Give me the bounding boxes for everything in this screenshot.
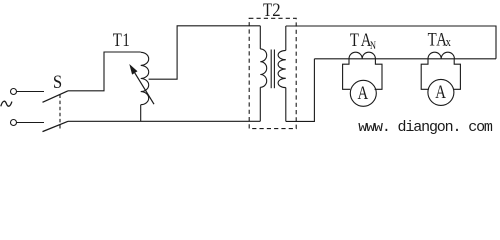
T2 core line right	[273, 50, 275, 89]
measuring circuit primary line	[314, 58, 496, 60]
T2 primary bottom lead	[259, 87, 261, 121]
terminal bottom	[11, 120, 17, 126]
wire secondary top rail	[286, 26, 496, 59]
T1 slider arrow	[135, 73, 154, 104]
transformer T2 dashed enclosure	[249, 18, 296, 128]
autotransformer T1 coil	[141, 52, 149, 104]
TA_X connection frame	[421, 59, 429, 90]
TA_N connection frame	[343, 59, 351, 90]
wire secondary bottom to measuring line	[286, 59, 315, 122]
wire bottom rail switch to T2 primary	[68, 120, 260, 122]
svg-text:1: 1	[122, 29, 129, 50]
svg-text:S: S	[53, 71, 62, 92]
wire switch top to T1 left corner	[68, 52, 141, 91]
svg-text:N: N	[370, 40, 376, 53]
AC source symbol ~	[1, 101, 12, 106]
T2 secondary winding (4 arcs)	[278, 50, 286, 87]
switch S gang linkage dashed	[59, 95, 61, 129]
T2 primary top lead	[259, 26, 261, 49]
T2 primary winding (3 arcs)	[260, 49, 266, 87]
T2 secondary bottom lead	[285, 88, 287, 122]
svg-text:T: T	[113, 29, 123, 50]
svg-text:x: x	[446, 35, 451, 49]
svg-text:2: 2	[272, 0, 280, 20]
terminal top	[11, 89, 17, 95]
T1 bottom lead	[140, 105, 142, 122]
T2 core line left	[270, 50, 272, 89]
switch S blade top pole	[43, 91, 69, 103]
current transformer TA_N secondary arcs	[349, 52, 375, 59]
T1 tap wire to T2	[149, 26, 261, 79]
svg-text:A: A	[358, 82, 369, 103]
T2 secondary top lead	[285, 26, 287, 50]
switch S blade bottom pole	[43, 121, 69, 131]
ammeter A (TA_X)	[428, 79, 454, 105]
current transformer TA_X secondary arcs	[428, 52, 454, 59]
svg-text:A: A	[435, 81, 446, 102]
svg-text:T: T	[263, 0, 273, 21]
wire top from terminal to switch	[17, 91, 44, 93]
ammeter A (TA_N)	[350, 80, 376, 106]
svg-text:www. diangon. com: www. diangon. com	[358, 119, 493, 136]
svg-text:T: T	[350, 29, 360, 50]
wire bottom from terminal to switch	[17, 122, 44, 124]
T1 arrow head	[129, 64, 137, 75]
